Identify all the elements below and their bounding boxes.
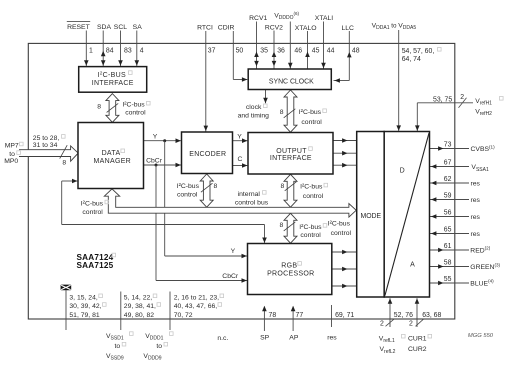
svg-text:MANAGER: MANAGER xyxy=(94,158,132,165)
svg-text:55: 55 xyxy=(444,276,452,283)
svg-text:35: 35 xyxy=(260,47,268,54)
svg-text:res: res xyxy=(471,231,481,238)
svg-text:INTERFACE: INTERFACE xyxy=(92,80,134,87)
svg-text:40, 43, 47, 66,: 40, 43, 47, 66, xyxy=(174,303,218,310)
svg-text:SCL: SCL xyxy=(114,24,127,31)
svg-text:58: 58 xyxy=(444,260,452,267)
svg-text:I²C-bus: I²C-bus xyxy=(299,109,322,116)
svg-text:I²C-bus: I²C-bus xyxy=(81,201,104,208)
svg-text:45: 45 xyxy=(312,47,320,54)
svg-text:50: 50 xyxy=(236,47,244,54)
svg-text:8: 8 xyxy=(214,183,218,190)
svg-text:control: control xyxy=(82,209,103,216)
svg-text:XTALO: XTALO xyxy=(295,25,317,32)
svg-text:INTERFACE: INTERFACE xyxy=(270,155,312,162)
svg-text:69, 71: 69, 71 xyxy=(335,312,354,319)
svg-text:77: 77 xyxy=(296,312,304,319)
svg-text:54, 57, 60,: 54, 57, 60, xyxy=(402,48,435,55)
svg-text:MP0: MP0 xyxy=(4,158,18,165)
svg-text:res: res xyxy=(471,197,481,204)
svg-text:LLC: LLC xyxy=(341,25,354,32)
svg-text:61: 61 xyxy=(444,243,452,250)
svg-text:SA: SA xyxy=(133,24,143,31)
svg-text:control: control xyxy=(303,193,324,200)
svg-text:control: control xyxy=(125,110,146,117)
svg-text:65: 65 xyxy=(444,227,452,234)
svg-text:51, 79, 81: 51, 79, 81 xyxy=(69,312,99,319)
svg-text:56: 56 xyxy=(444,210,452,217)
svg-text:63, 68: 63, 68 xyxy=(422,312,441,319)
svg-text:4: 4 xyxy=(140,47,144,54)
svg-text:res: res xyxy=(327,334,337,341)
svg-text:29, 38, 41,: 29, 38, 41, xyxy=(124,303,156,310)
svg-text:8: 8 xyxy=(97,104,101,111)
svg-text:1: 1 xyxy=(89,47,93,54)
svg-text:CUR1: CUR1 xyxy=(408,336,427,343)
svg-text:CbCr: CbCr xyxy=(222,273,239,280)
svg-text:res: res xyxy=(471,214,481,221)
svg-text:control: control xyxy=(301,119,322,126)
svg-text:2: 2 xyxy=(409,321,413,328)
svg-text:CbCr: CbCr xyxy=(146,158,163,165)
svg-text:8: 8 xyxy=(62,159,66,166)
svg-text:XTALI: XTALI xyxy=(315,15,333,22)
svg-text:I²C-bus: I²C-bus xyxy=(328,221,351,228)
svg-text:RCV1: RCV1 xyxy=(249,15,267,22)
svg-text:I²C-bus: I²C-bus xyxy=(299,224,322,231)
svg-text:to: to xyxy=(115,343,121,350)
svg-text:62: 62 xyxy=(444,176,452,183)
svg-text:8: 8 xyxy=(280,109,284,116)
svg-text:CDIR: CDIR xyxy=(218,24,235,31)
svg-text:ENCODER: ENCODER xyxy=(189,151,226,158)
svg-text:Y: Y xyxy=(153,134,158,141)
svg-text:Y: Y xyxy=(231,248,236,255)
svg-text:67: 67 xyxy=(444,160,452,167)
svg-text:I²C-bus: I²C-bus xyxy=(300,184,323,191)
svg-text:RESET: RESET xyxy=(67,24,90,31)
svg-text:MGG 550: MGG 550 xyxy=(468,333,494,339)
svg-text:31 to 34: 31 to 34 xyxy=(33,142,58,149)
svg-text:37: 37 xyxy=(208,47,216,54)
svg-text:D: D xyxy=(400,168,405,175)
svg-text:MODE: MODE xyxy=(360,213,381,220)
svg-text:64, 74: 64, 74 xyxy=(402,56,421,63)
svg-text:49, 80, 82: 49, 80, 82 xyxy=(124,312,154,319)
svg-text:res: res xyxy=(471,180,481,187)
svg-text:n.c.: n.c. xyxy=(217,335,228,342)
svg-text:2: 2 xyxy=(380,321,384,328)
svg-text:3, 15, 24,: 3, 15, 24, xyxy=(69,295,97,302)
svg-text:8: 8 xyxy=(281,183,285,190)
svg-text:DATA: DATA xyxy=(102,150,121,157)
svg-text:control bus: control bus xyxy=(235,199,269,206)
svg-text:SYNC CLOCK: SYNC CLOCK xyxy=(269,79,314,86)
svg-text:C: C xyxy=(238,156,243,163)
svg-text:RCV2: RCV2 xyxy=(265,24,283,31)
svg-text:52, 76: 52, 76 xyxy=(394,312,413,319)
svg-text:2, 16 to 21, 23,: 2, 16 to 21, 23, xyxy=(174,295,219,302)
svg-text:53, 75: 53, 75 xyxy=(433,97,452,104)
svg-text:59: 59 xyxy=(444,193,452,200)
svg-text:SP: SP xyxy=(260,335,270,342)
svg-text:46: 46 xyxy=(294,47,302,54)
svg-text:A: A xyxy=(410,262,415,269)
svg-text:PROCESSOR: PROCESSOR xyxy=(267,270,314,277)
svg-text:73: 73 xyxy=(444,142,452,149)
svg-text:control: control xyxy=(331,230,352,237)
svg-text:30, 39, 42,: 30, 39, 42, xyxy=(69,303,101,310)
svg-text:5, 14, 22,: 5, 14, 22, xyxy=(124,295,152,302)
svg-text:83: 83 xyxy=(124,47,132,54)
svg-text:44: 44 xyxy=(327,47,335,54)
svg-text:internal: internal xyxy=(238,191,261,198)
svg-text:78: 78 xyxy=(269,312,277,319)
svg-text:RTCI: RTCI xyxy=(197,24,213,31)
svg-text:70, 72: 70, 72 xyxy=(174,312,193,319)
svg-text:CUR2: CUR2 xyxy=(408,346,427,353)
svg-text:84: 84 xyxy=(106,47,114,54)
svg-text:control: control xyxy=(300,232,321,239)
svg-text:Y: Y xyxy=(237,133,242,140)
svg-text:AP: AP xyxy=(289,335,299,342)
svg-text:to: to xyxy=(156,343,162,350)
svg-text:clock: clock xyxy=(246,104,262,111)
svg-text:SDA: SDA xyxy=(97,24,111,31)
svg-text:MP7: MP7 xyxy=(5,143,19,150)
svg-text:I²C-bus: I²C-bus xyxy=(177,183,200,190)
svg-text:SAA7125: SAA7125 xyxy=(77,261,114,270)
svg-text:8: 8 xyxy=(280,222,284,229)
svg-text:RGB: RGB xyxy=(281,263,297,270)
svg-text:I2C-BUS: I2C-BUS xyxy=(97,71,126,79)
svg-text:OUTPUT: OUTPUT xyxy=(276,148,307,155)
svg-text:and timing: and timing xyxy=(238,113,270,120)
svg-text:control: control xyxy=(177,191,198,198)
svg-text:I²C-bus: I²C-bus xyxy=(122,102,145,109)
svg-text:2: 2 xyxy=(460,94,464,101)
svg-text:48: 48 xyxy=(352,47,360,54)
svg-text:36: 36 xyxy=(277,47,285,54)
